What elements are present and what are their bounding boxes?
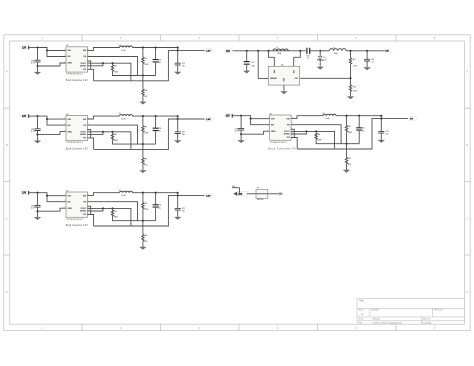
node divider mid (349, 77, 351, 79)
svg-text:C17: C17 (251, 62, 254, 64)
node L1 right (299, 50, 301, 52)
svg-text:L3: L3 (333, 47, 335, 49)
node C15 (366, 50, 368, 52)
wire to fuse (247, 193, 256, 195)
op-amp U4 current monitor (268, 66, 299, 85)
border column ticks bottom (82, 324, 396, 330)
border row ticks right (464, 108, 470, 255)
date row divider (357, 320, 464, 322)
svg-text:R12: R12 (353, 87, 356, 89)
port 12V left arrow (233, 192, 237, 196)
port 12V filter input (224, 49, 232, 53)
node zener (319, 50, 321, 52)
svg-text:Buck Converter 1.2V: Buck Converter 1.2V (66, 79, 88, 82)
revision column divider (431, 308, 433, 317)
wire U4 ground stub (283, 85, 285, 91)
svg-text:1u: 1u (372, 62, 374, 64)
sheet outer border (4, 35, 470, 331)
buck converter 2 (1.5V) (20, 113, 214, 173)
svg-text:D: D (6, 290, 8, 294)
svg-text:12V: 12V (238, 194, 243, 196)
node divider (349, 50, 351, 52)
svg-text:3A 125V: 3A 125V (257, 198, 264, 201)
svg-text:VIN+: VIN+ (274, 70, 276, 74)
svg-text:F1: F1 (257, 188, 259, 190)
svg-text:B: B (466, 143, 468, 147)
svg-text:1.2V: 1.2V (206, 50, 211, 52)
svg-text:100u: 100u (251, 66, 255, 68)
size column divider (369, 308, 371, 317)
title block outline (357, 299, 464, 325)
wire jog to VIN- (294, 51, 301, 67)
node L1 left (267, 50, 269, 52)
capacitor C17 bulk (246, 51, 248, 62)
svg-text:VIN-: VIN- (293, 70, 295, 74)
svg-text:L1: L1 (276, 47, 278, 49)
svg-text:File:: File: (359, 322, 363, 324)
svg-text:OUT: OUT (295, 78, 299, 80)
svg-text:Title: Title (359, 300, 364, 303)
svg-text:R11: R11 (353, 59, 356, 61)
sheet inner border (10, 41, 465, 324)
fuse F1 (256, 189, 268, 198)
port 12V filter output (385, 49, 393, 53)
svg-text:Buck Converter 1.5V: Buck Converter 1.5V (66, 148, 88, 151)
ground C15 (363, 67, 370, 70)
wire divider to U4 out (300, 77, 351, 79)
port right arrow (279, 192, 283, 196)
svg-text:9/6/2021: 9/6/2021 (372, 319, 381, 321)
svg-text:A: A (361, 312, 363, 316)
svg-text:Date:: Date: (359, 318, 364, 321)
wire main rail (233, 50, 306, 52)
svg-text:Sheet of: Sheet of (423, 318, 431, 321)
ground U4 (280, 91, 287, 94)
svg-text:C: C (466, 216, 468, 220)
sheet column divider (420, 317, 422, 324)
border column ticks top (82, 35, 396, 41)
buck converter 4 (5V) (224, 113, 418, 173)
ground R12 (347, 96, 354, 99)
wire fuse to port (268, 193, 280, 195)
svg-text:A: A (466, 70, 468, 74)
svg-text:Drawn By:: Drawn By: (423, 322, 433, 324)
wire jog to VIN+ (269, 51, 275, 67)
svg-text:1.5V: 1.5V (206, 119, 211, 121)
svg-text:C: C (6, 216, 8, 220)
svg-text:D: D (466, 290, 468, 294)
wire rail to L3 (320, 50, 329, 52)
svg-text:12V: 12V (226, 51, 231, 53)
number row divider (357, 316, 464, 318)
ground C17 (243, 71, 250, 74)
buck converter 1 (1.2V) (20, 45, 214, 105)
capacitor C16 series sense (307, 48, 310, 54)
svg-text:Revision: Revision (435, 310, 444, 312)
ground D1 (317, 67, 324, 70)
capacitor C15 (366, 51, 368, 59)
svg-text:3.3V: 3.3V (206, 196, 211, 198)
title row divider (357, 307, 464, 309)
border row ticks left (4, 108, 10, 255)
inductor L3 (329, 49, 346, 51)
svg-text:12V: 12V (385, 51, 389, 53)
wire to U4 left pin (258, 51, 268, 79)
svg-text:A: A (6, 70, 8, 74)
svg-text:B: B (6, 143, 8, 147)
inductor L1 (273, 49, 288, 51)
buck converter 3 (3.3V) (20, 190, 214, 250)
svg-text:Buck Converter 5V: Buck Converter 5V (269, 148, 297, 151)
svg-text:VSENSE: VSENSE (270, 78, 278, 80)
svg-text:C:\Users\..\Power Supply.SchDo: C:\Users\..\Power Supply.SchDoc (372, 322, 402, 324)
node C17 (246, 50, 248, 52)
node U4 supply (257, 50, 259, 52)
wire rail to port (346, 50, 385, 52)
svg-text:U4: U4 (281, 65, 283, 67)
resistor R12 divider bottom (350, 78, 352, 85)
svg-text:1u: 1u (307, 58, 309, 60)
svg-text:Buck Converter 3.3V: Buck Converter 3.3V (66, 224, 88, 227)
svg-text:Number: Number (372, 309, 380, 312)
diode D1 zener (319, 51, 321, 57)
resistor R11 divider top (350, 51, 352, 58)
